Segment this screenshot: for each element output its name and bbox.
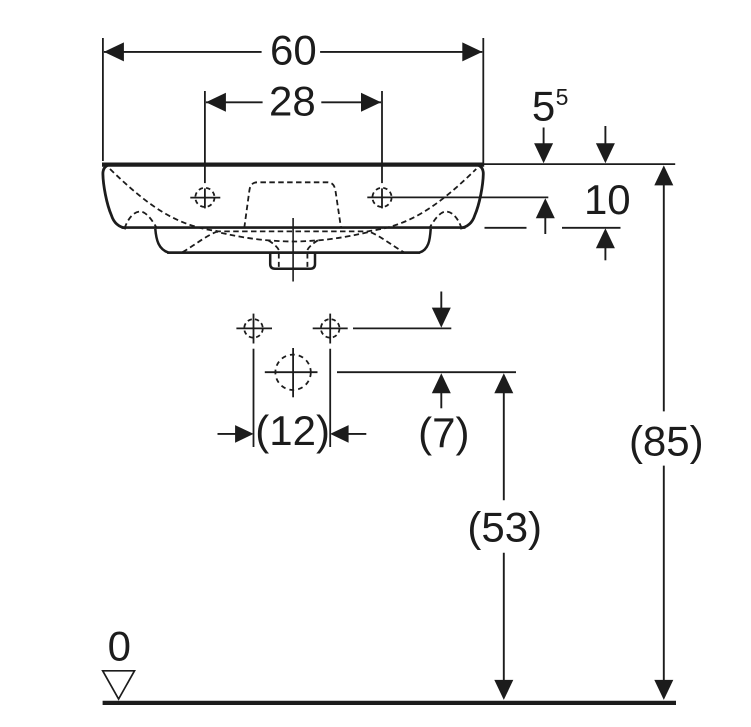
dimension 60 left extension line (102, 38, 104, 161)
centerline (292, 218, 294, 282)
washbasin left profile (103, 164, 126, 228)
dimension 53 stem (503, 391, 505, 501)
dimension 7 up arrow (432, 373, 451, 393)
siphon leader line (337, 371, 516, 373)
svg-text:28: 28 (269, 77, 316, 124)
drain spout outline (270, 254, 315, 269)
wall hole leader line (313, 327, 348, 329)
washbasin apron outline (155, 229, 430, 253)
right funnel dashed line (307, 240, 318, 251)
dimension 28 right arrowhead (361, 93, 381, 112)
central tap platform dashed trapezoid (244, 182, 341, 228)
dimension 10 top arrow (604, 126, 606, 145)
dimension 28 left arrowhead (206, 93, 226, 112)
dimension 7 down arrow (440, 292, 442, 310)
ground line (103, 701, 676, 705)
tap hole leader line (367, 196, 548, 198)
dimension 53 bottom arrowhead (494, 680, 513, 700)
dimension 60 right extension line (482, 38, 484, 163)
siphon dashed circle (275, 355, 310, 390)
dimension 5.5 down arrow (543, 128, 545, 147)
apron bottom line (167, 251, 420, 254)
right overflow hump dashed (429, 212, 462, 229)
tap hole left cross (195, 188, 214, 207)
svg-text:0: 0 (108, 623, 131, 670)
svg-text:60: 60 (270, 27, 317, 74)
svg-text:(53): (53) (467, 504, 542, 551)
svg-text:5: 5 (556, 84, 569, 110)
dimension 85 stem (663, 183, 665, 412)
top reference line (483, 163, 675, 165)
dimension 12 right arrow (330, 425, 349, 443)
dimension 12 left arrow (218, 433, 237, 435)
dimension 28 right extension line (381, 91, 383, 183)
dimension 5.5 up arrow (536, 198, 555, 218)
datum zero triangle (103, 671, 135, 699)
svg-text:(7): (7) (418, 409, 469, 456)
wall hole right cross (321, 319, 340, 338)
dimension 12 right extension line (329, 349, 331, 447)
left overflow hump dashed (125, 212, 158, 229)
inner bowl rim dashed curve (110, 169, 476, 231)
dimension 85 bottom arrowhead (654, 680, 673, 700)
dimension 53 top arrowhead (494, 373, 513, 393)
svg-text:10: 10 (584, 176, 631, 223)
svg-text:(12): (12) (255, 407, 330, 454)
dimension 60 right arrowhead (462, 42, 482, 61)
dimension 10 bottom arrow (596, 228, 615, 248)
dimension 60 line (104, 51, 262, 53)
svg-text:(85): (85) (629, 418, 704, 465)
washbasin top edge (102, 163, 484, 167)
drain dashed inner lines (278, 254, 280, 269)
dimension 28 left extension line (204, 91, 206, 183)
left funnel dashed line (268, 240, 279, 251)
svg-text:5: 5 (532, 83, 555, 130)
dimension 28 line (206, 101, 263, 103)
dimension 60 left arrowhead (104, 42, 124, 61)
basin bottom extension segments (485, 227, 527, 229)
dimension 12 left extension line (253, 349, 255, 447)
wall hole left cross (244, 319, 263, 338)
bowl underside dashed curve (183, 232, 404, 252)
dimension 85 top arrowhead (654, 165, 673, 185)
washbasin right profile (460, 164, 483, 228)
tap hole right cross (372, 188, 391, 207)
washbasin bottom edge (122, 226, 466, 229)
